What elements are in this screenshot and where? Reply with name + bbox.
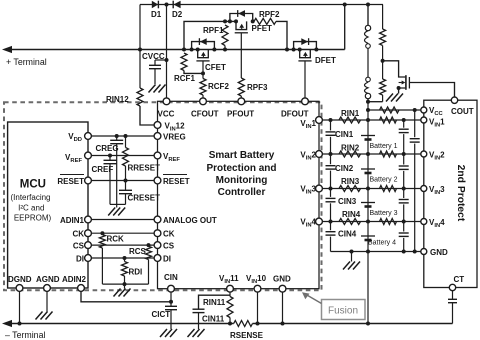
capacitor C 2nd-protect VCC filter [410,110,420,252]
svg-text:VCC: VCC [158,110,175,119]
svg-text:CS: CS [163,242,175,251]
ground (CK/CS/DI pulldowns) [114,284,131,296]
diode D2 [172,1,183,19]
battery Battery 4 [361,236,396,247]
node: RPF1 bottom on rail [223,48,227,52]
svg-text:PFET: PFET [252,24,273,33]
node: CIN/ADIN2/CICT junction [169,300,173,304]
ground (CVCC) [149,85,166,93]
node: gate/RCF1/RCF2 junction [201,71,205,75]
wire: VIN1 row [322,119,420,121]
svg-text:DFET: DFET [315,56,336,65]
+ terminal arrowhead [2,46,12,53]
ground (battery stack) [343,252,360,270]
node: heater midpoint [381,59,385,63]
node: VIN4 row junctions [329,220,333,224]
wire: between fuse elements [367,48,369,77]
node: RRESET/CRESET junction on RESET row [124,179,128,183]
resistor RPF3 [238,78,268,96]
op-amp U2 2nd Protect IC box [424,100,477,287]
wire: VIN2 row [322,153,420,155]
svg-text:ANALOG OUT: ANALOG OUT [163,216,217,225]
svg-text:AGND: AGND [36,275,60,284]
svg-text:RIN11: RIN11 [203,298,226,307]
svg-text:RESET: RESET [57,177,84,186]
wire: VCC row [368,109,421,111]
svg-text:DGND: DGND [8,275,32,284]
MCU box [8,122,88,288]
wire: DFET gate to DFOUT pin [304,61,306,101]
wire: CVCC branch [155,59,167,61]
svg-text:CIN4: CIN4 [338,230,357,239]
node: fuse bottom junction [366,100,370,104]
svg-text:Battery 3: Battery 3 [370,210,398,217]
resistor heater R top [380,5,386,61]
capacitor CRESET [119,181,160,203]
capacitor CREG [96,134,124,153]
svg-text:RIN2: RIN2 [341,144,360,153]
resistor RPF1 [203,25,228,46]
svg-text:CS: CS [73,242,85,251]
svg-text:RCF2: RCF2 [208,82,229,91]
node: rail junction at x=140 [138,48,142,52]
node: riser top junction [343,3,347,7]
node: VIN2 row junctions [329,152,333,156]
resistor RIN11 [203,297,233,324]
resistor RIN4 [339,210,361,225]
node: RIN11 on rail [228,322,232,326]
capacitor CIN3 [326,189,357,222]
wire: RPF3 to PFOUT pin [240,96,242,101]
svg-text:CIN2: CIN2 [335,164,354,173]
capacitor C 2nd-protect VIN2 filter [399,154,409,189]
wire: ADIN2 to CIN junction [81,291,171,302]
svg-text:+ Terminal: + Terminal [6,57,47,67]
svg-text:RIN3: RIN3 [341,177,360,186]
svg-text:(Interfacing: (Interfacing [10,193,50,202]
fuse element 2 (thermal protector) [365,77,371,102]
2nd Protect pins [421,97,458,291]
op-amp U1 Smart Battery Protection and Monitoring Controller (pins) [154,98,322,292]
svg-text:CIN: CIN [164,273,178,282]
battery Battery 3 [361,203,398,218]
wire: VIN4 row [322,221,420,223]
svg-text:Battery 1: Battery 1 [370,143,398,150]
svg-text:– Terminal: – Terminal [5,330,45,340]
node: ground row junctions [366,250,370,254]
svg-text:Controller: Controller [218,187,266,198]
wire: controller GND drop [282,292,284,324]
transistor DFET [292,38,336,65]
wire: pulldown collector [102,283,148,285]
controller IC box outline [158,101,320,288]
Fusion callout box [322,300,366,320]
wire: RIN12 to VIN12 pin [140,106,154,125]
svg-text:D2: D2 [172,10,183,19]
resistor (VIN3 2nd filter) [380,186,397,192]
MCU pins [16,133,91,292]
capacitor CIN2 [326,154,354,189]
svg-text:CK: CK [72,230,84,239]
resistor (VIN4 2nd filter) [380,219,397,225]
capacitor CIN4 [326,222,357,252]
capacitor C 2nd-protect VIN4 filter [399,222,409,252]
resistor RDI [122,256,143,284]
svg-text:ADIN2: ADIN2 [62,275,87,284]
capacitor C 2nd-protect VIN3 filter [399,189,409,222]
ground (AGND) [36,312,53,320]
node: CVCC branch junction [165,58,169,62]
svg-text:RRESET: RRESET [128,164,161,173]
svg-text:CK: CK [163,230,175,239]
svg-text:RDI: RDI [129,268,143,277]
resistor RIN12 [106,88,143,106]
controller title text [206,150,276,198]
ground (CREG/CREF/CRESET) [108,208,125,216]
svg-text:RPF1: RPF1 [203,26,224,35]
wire: RPF1 bottom lead [224,46,226,50]
resistor RCS [129,243,152,284]
svg-text:Battery 2: Battery 2 [370,177,398,184]
node: VCC row junctions [366,108,370,112]
wire: D1/D2 top wire from x=140 to heater [140,4,383,6]
battery Battery 1 [361,136,398,151]
ground (NFET source) [386,94,403,102]
wire: DI row [91,257,154,259]
wire: CICT down across rail [170,310,172,329]
resistor RSENSE [230,321,264,340]
resistor RIN3 [339,177,361,192]
node: VIN3 row junctions [329,187,333,191]
node: junction at x=184 on rail [182,48,186,52]
Fusion pack dashed boundary [4,102,322,290]
svg-text:DFOUT: DFOUT [281,110,309,119]
wire: CREF down [109,164,111,205]
svg-text:GND: GND [430,248,448,257]
capacitor C 2nd-protect VIN1 filter [399,120,409,154]
wire: CRESET down to ground collector [125,194,127,205]
- terminal arrowhead [2,320,12,327]
node: VIN1 row junctions [329,118,333,122]
wire: battery negative to - rail [367,252,369,324]
wire: DGND drop [19,291,21,323]
svg-text:EEPROM): EEPROM) [14,214,52,223]
svg-text:D1: D1 [151,10,162,19]
svg-text:Fusion: Fusion [328,306,358,317]
svg-text:CVCC: CVCC [142,52,165,61]
resistor (VIN1 2nd filter) [380,117,397,123]
node: D1/D2 cathode junction [165,3,169,7]
wire: VIN3 row [322,188,420,190]
wire: VIN10 drop [257,292,259,324]
resistor RCF2 [200,79,229,96]
wire: VCC feed from D1/D2 junction down to VCC pin [166,5,168,102]
wire: VREF row [91,155,154,157]
wire: ADIN1-ANALOG OUT row [91,219,154,221]
wire: battery ground row [331,251,421,253]
resistor RIN2 [339,144,361,158]
svg-text:COUT: COUT [451,107,474,116]
svg-text:RCF1: RCF1 [174,74,195,83]
capacitor CREF [92,154,117,175]
resistor heater R bottom [368,61,386,102]
wire: rail to RIN12 [139,50,141,89]
resistor RCF1 [174,53,195,83]
wire: RPF2 to DFET source rail [276,21,287,49]
resistor RCK [99,231,124,284]
wire: battery column [367,102,369,252]
svg-text:RIN1: RIN1 [341,109,360,118]
capacitor CIN11 [193,309,225,323]
wire: left drop to rail at x=140 [139,5,141,50]
wire: AGND drop [46,291,48,311]
svg-text:DI: DI [163,255,171,264]
fuse element 1 (thermal protector) [365,5,371,49]
capacitor CT timing cap [448,291,457,324]
wire: CIN pin drop [170,292,172,302]
svg-text:RIN12: RIN12 [106,95,129,104]
wire: CFET gate lead [202,61,204,79]
wire: CIN11 down across rail [198,313,200,329]
svg-text:CFET: CFET [205,63,226,72]
svg-text:Protection and: Protection and [206,163,276,174]
resistor (VCC filter) [380,107,400,113]
svg-text:PFOUT: PFOUT [227,110,254,119]
wire: VIN11 drop and branch [229,292,231,297]
svg-text:RCK: RCK [107,235,125,244]
svg-text:ADIN1: ADIN1 [60,216,85,225]
wire: - terminal bottom rail [10,323,234,325]
resistor RIN1 [339,109,361,123]
svg-text:Battery 4: Battery 4 [368,240,396,247]
wire: VDD-VREG row [91,135,154,137]
svg-text:RSENSE: RSENSE [230,331,264,340]
svg-text:Smart Battery: Smart Battery [209,150,275,161]
wire: + terminal top rail [10,49,345,51]
svg-text:RIN4: RIN4 [342,210,361,219]
node: fuse top junction [366,3,370,7]
svg-text:MCU: MCU [20,179,46,191]
svg-text:RPF3: RPF3 [247,83,268,92]
capacitor CVCC [142,52,165,69]
resistor (VIN2 2nd filter) [380,151,397,157]
ground (CIN11) [188,329,205,337]
transistor Q1 fuse-blow NFET [397,75,410,93]
node: RPF1 top junction [223,19,227,23]
wire: NFET gate to COUT [409,83,454,98]
svg-text:VREG: VREG [163,133,186,142]
ground (CICT) [160,329,177,337]
transistor PFET [228,10,272,33]
wire: ground drop [116,204,118,207]
capacitor CIN1 [326,120,354,154]
node: collector junction [123,282,127,286]
wire: PFET gate to RPF3 [240,33,242,78]
svg-text:CT: CT [454,275,465,284]
wire: heater midpoint to NFET drain [383,61,406,77]
wire: RESET row [91,180,154,182]
svg-text:2nd Protect: 2nd Protect [455,165,466,222]
battery Battery 2 [361,169,398,184]
diode D1 [151,1,162,19]
svg-text:I²C and: I²C and [18,204,44,213]
Fusion arrow [302,292,322,303]
svg-text:DI: DI [76,255,84,264]
wire: RCF1 to CFET gate line [184,71,203,74]
svg-text:Monitoring: Monitoring [216,175,268,186]
wire: DFET drain riser to top wire [344,5,346,50]
svg-text:RPF2: RPF2 [259,10,280,19]
wire: CFET source node riser and PFET source wire [184,21,236,49]
svg-text:CICT: CICT [152,310,171,319]
svg-text:GND: GND [273,275,291,284]
node: RPF2 drop on rail [285,48,289,52]
svg-text:CRESET: CRESET [128,194,161,203]
wire: CREG down [116,144,118,205]
svg-text:CFOUT: CFOUT [191,110,219,119]
svg-text:CIN11: CIN11 [202,315,225,324]
svg-text:CIN3: CIN3 [338,197,357,206]
resistor RRESET [123,134,161,181]
resistor RPF2 [254,10,280,24]
transistor CFET [190,38,226,72]
svg-text:CREG: CREG [96,144,119,153]
capacitor CICT [152,302,178,319]
wire: CVCC to ground [154,69,156,84]
MCU title [10,179,51,223]
wire: RCF2 to CFOUT pin [202,95,204,101]
wire: CK row [91,232,154,234]
svg-text:RCS: RCS [129,247,147,256]
wire: CS row [91,244,154,246]
svg-text:CIN1: CIN1 [335,130,354,139]
svg-text:RESET: RESET [163,177,190,186]
